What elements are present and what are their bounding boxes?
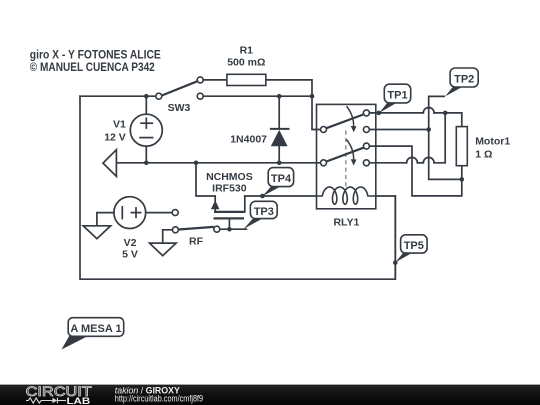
junction: TP4 node [260, 194, 265, 199]
relay coil [317, 187, 376, 204]
wire: relay throw4 out with two hops, up to wire1 dot [369, 162, 406, 164]
svg-text:1 Ω: 1 Ω [475, 149, 492, 161]
test point flag TP4 [262, 168, 293, 197]
svg-text:NCHMOS: NCHMOS [206, 171, 253, 183]
ground (V2 negative) [83, 226, 110, 239]
svg-text:A MESA 1: A MESA 1 [70, 323, 121, 335]
wire: relay throw1 out to TP1 node and motor top [369, 112, 423, 114]
voltage source V2 [114, 197, 146, 229]
svg-text:http://circuitlab.com/cmfj8f9: http://circuitlab.com/cmfj8f9 [115, 393, 203, 403]
wire: SW3 upper throw to R1 left lead [203, 79, 227, 81]
svg-text:IRF530: IRF530 [212, 182, 247, 194]
svg-text:1N4007: 1N4007 [230, 134, 267, 146]
junction: diode bottom [277, 161, 282, 166]
diode D1 1N4007 [270, 129, 290, 146]
wire: V1 bottom lead [145, 146, 147, 163]
svg-text:V1: V1 [113, 118, 126, 130]
relay pole1 arrow [347, 106, 354, 126]
wire: hop on wire4 over x=412 [407, 157, 418, 162]
svg-text:R1: R1 [240, 45, 254, 57]
svg-text:RLY1: RLY1 [333, 217, 359, 229]
wire: gate row y=229 from RF common to TP3 tip [220, 228, 247, 230]
wire: V2 right lead to open throw [146, 212, 173, 214]
junction: TP1 node [377, 111, 382, 116]
wire: diode branch vertical x=279.2 lower part [278, 146, 280, 162]
svg-text:5 V: 5 V [122, 249, 138, 261]
test point flag TP5 [395, 235, 427, 263]
wire: V2 left lead and ground drop [97, 213, 114, 226]
wire: wire1 continue to motor top corner [434, 113, 462, 127]
wire: row y=196 drain to relay coil left [245, 195, 317, 197]
svg-text:© MANUEL CUENCA P342: © MANUEL CUENCA P342 [30, 60, 155, 74]
wire: row y=162.8 from left arrow to relay pole2 common [116, 162, 320, 164]
wire: left border loop (x=80 vertical + bottom run) [80, 96, 395, 279]
relay pole2 arrow [347, 140, 354, 160]
resistor R1 [227, 74, 266, 85]
svg-text:Motor1: Motor1 [475, 136, 510, 148]
svg-text:TP2: TP2 [454, 73, 474, 85]
relay pole2 lever [326, 148, 363, 162]
svg-text:LAB: LAB [67, 396, 91, 405]
wire: top row y=96 from left corner to SW3 common [80, 95, 156, 97]
wire: SW3 lower throw row y=96 to corner [203, 95, 312, 97]
voltage source V1 [130, 114, 162, 146]
junction: TP2 node on wire2 [426, 127, 431, 132]
switch SW3 [156, 77, 203, 99]
test point flag TP3 [244, 201, 278, 229]
junction: V1 bottom [144, 161, 149, 166]
wire: hop on wire4 over x=428.7 [423, 157, 434, 162]
wire: RF lower throw to small ground [163, 230, 173, 243]
test point flag TP1 [379, 84, 410, 113]
wire: corner x=312 down to relay pole1 common [312, 96, 321, 129]
relay mechanical dashed link [345, 131, 347, 189]
junction: V1 top [144, 94, 149, 99]
nmos Q1 NCHMOS IRF530 [211, 200, 245, 218]
wire: relay throw3 out, down, right, up to motor bottom dot [369, 146, 461, 196]
svg-text:TP3: TP3 [254, 206, 274, 218]
wire: hop on wire1 over x=428.7 [423, 108, 434, 113]
junction: motor bottom [460, 177, 465, 182]
svg-text:TP5: TP5 [404, 240, 424, 252]
junction: gate node [227, 227, 232, 232]
wire: V1 top lead [145, 96, 147, 114]
switch RF [172, 210, 220, 233]
relay pole1 lever [326, 114, 363, 128]
junction: TP5 node [393, 260, 398, 265]
svg-text:12 V: 12 V [104, 131, 126, 143]
callout flag A MESA 1 [62, 318, 124, 350]
wire: coil right lead vertical to bottom run (TP5 branch) [394, 196, 396, 279]
ground (RF lower throw) [150, 243, 177, 256]
relay RLY1 [317, 104, 376, 208]
junction: mosfet source tap [194, 161, 199, 166]
junction: diode top [277, 94, 282, 99]
wire: TP2 vertical branch x=428.7 from corner down to motor bottom row [429, 96, 462, 179]
svg-text:V2: V2 [124, 237, 137, 249]
svg-text:SW3: SW3 [168, 102, 191, 114]
wire: R1 right lead to corner x=312 down to y=96 [266, 80, 312, 96]
net arrow flag (left, row y=162.8) [103, 150, 116, 177]
svg-text:RF: RF [189, 236, 204, 248]
wire: MOSFET gate lead down to row y=229 [228, 218, 230, 229]
svg-text:500 mΩ: 500 mΩ [227, 57, 265, 69]
svg-text:TP4: TP4 [271, 173, 292, 185]
wire: MOSFET drain lead up to row y=196 [244, 196, 246, 212]
footer logo resistor-diode squiggle [26, 398, 66, 404]
wire: diode branch vertical x=279.2 upper part [278, 96, 280, 128]
wire: MOSFET source lead from junction down and right [196, 163, 215, 212]
junction: R1 corner [310, 94, 315, 99]
test point flag TP2 [445, 68, 478, 96]
wire: motor bottom lead [461, 166, 463, 180]
wire: relay throw2 out to TP2 node dot [369, 129, 428, 131]
relay contact terminals [321, 127, 327, 133]
svg-text:TP1: TP1 [387, 89, 407, 101]
junction: wire4 joins wire1 [443, 111, 448, 116]
motor Motor1 (resistor body) [456, 127, 467, 166]
